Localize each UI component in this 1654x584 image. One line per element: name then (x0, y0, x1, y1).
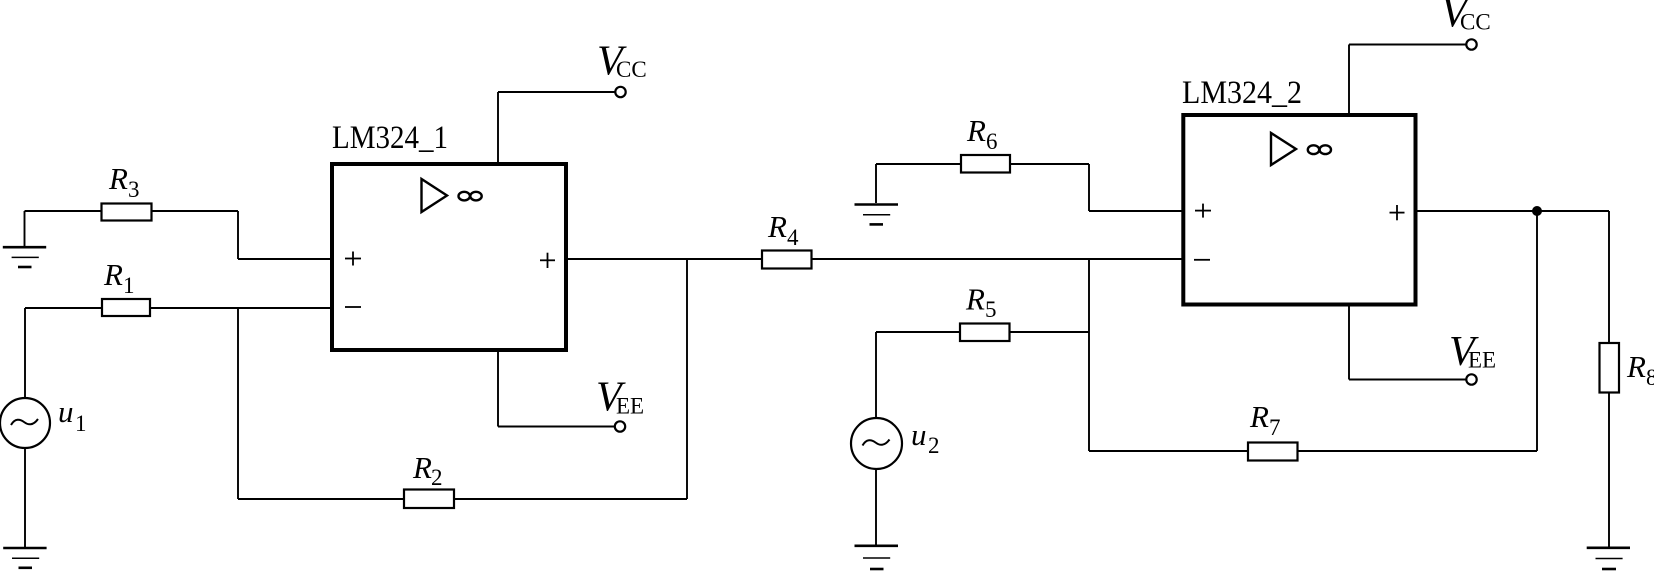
wire (498, 91, 615, 93)
ground (1587, 548, 1630, 569)
wire (1417, 210, 1609, 212)
op-amp U1 output plus (540, 253, 555, 268)
svg-text:3: 3 (128, 177, 140, 202)
resistor R2 (404, 450, 454, 508)
resistor R4 (762, 209, 812, 269)
op-amp U2 plus input (1195, 204, 1211, 218)
wire (1089, 210, 1183, 212)
svg-text:4: 4 (787, 225, 799, 250)
wire (1088, 164, 1090, 211)
wire (1088, 259, 1090, 451)
op-amp U1 LM324_1 (332, 120, 566, 350)
wire (25, 307, 102, 309)
wire (25, 210, 102, 212)
wire (1349, 44, 1466, 46)
svg-text:1: 1 (123, 273, 135, 298)
svg-text:R: R (966, 113, 986, 148)
source u2 (851, 417, 940, 469)
wire (152, 210, 239, 212)
wire (1089, 450, 1248, 452)
wire (1348, 45, 1350, 115)
resistor R8 (1600, 343, 1654, 393)
resistor R6 (961, 113, 1010, 173)
wire (1010, 163, 1089, 165)
op-amp U2 minus input (1194, 259, 1210, 261)
terminal VCC (1441, 0, 1491, 50)
wire (876, 163, 961, 165)
op-amp U1 minus input (345, 306, 361, 308)
svg-text:CC: CC (616, 57, 647, 82)
resistor R7 (1248, 399, 1298, 461)
resistor R3 (102, 161, 152, 221)
svg-text:LM324_2: LM324_2 (1182, 75, 1302, 111)
wire (566, 258, 762, 260)
svg-text:2: 2 (928, 433, 940, 458)
wire (498, 426, 614, 428)
wire (238, 258, 330, 260)
svg-text:7: 7 (1269, 415, 1281, 440)
wire (24, 448, 26, 547)
svg-text:6: 6 (986, 129, 998, 154)
svg-text:R: R (103, 257, 123, 292)
terminal VEE (1449, 329, 1496, 385)
op-amp U2 infinity (1308, 145, 1331, 154)
svg-text:R: R (412, 450, 432, 485)
ground (3, 548, 46, 568)
svg-text:u: u (58, 394, 74, 429)
wire (875, 469, 877, 545)
svg-text:EE: EE (1468, 348, 1496, 373)
svg-text:LM324_1: LM324_1 (332, 120, 448, 156)
wire (497, 92, 499, 162)
node output junction (1532, 206, 1542, 216)
svg-text:R: R (965, 282, 985, 317)
wire (237, 308, 239, 499)
wire (497, 352, 499, 427)
wire (1608, 393, 1610, 548)
wire (1010, 331, 1090, 333)
terminal VEE (596, 375, 644, 432)
svg-text:R: R (1626, 349, 1646, 384)
terminal VCC (597, 39, 647, 98)
svg-text:EE: EE (616, 394, 644, 419)
svg-text:8: 8 (1646, 365, 1654, 390)
op-amp U1 plus input (345, 252, 361, 266)
wire (454, 498, 687, 500)
wire (812, 258, 1184, 260)
wire (876, 331, 960, 333)
svg-text:u: u (911, 417, 927, 452)
op-amp U2 LM324_2 (1182, 75, 1416, 305)
wire (1349, 379, 1466, 381)
op-amp U1 infinity (459, 192, 482, 201)
svg-text:R: R (1249, 399, 1269, 434)
wire (686, 259, 688, 499)
op-amp U1 triangle (422, 179, 448, 212)
wire (1536, 211, 1538, 451)
op-amp U2 triangle (1271, 133, 1296, 165)
svg-text:1: 1 (75, 411, 87, 436)
op-amp U2 output plus (1390, 205, 1405, 220)
wire (237, 211, 239, 259)
wire (150, 307, 330, 309)
wire (24, 211, 26, 246)
wire (1348, 305, 1350, 380)
wire (24, 308, 26, 398)
svg-text:2: 2 (431, 465, 443, 490)
wire (1298, 450, 1538, 452)
wire (875, 164, 877, 203)
svg-text:CC: CC (1460, 10, 1491, 35)
ground (855, 546, 899, 569)
svg-text:R: R (108, 161, 128, 196)
resistor R5 (960, 282, 1010, 342)
svg-text:5: 5 (985, 297, 997, 322)
ground (855, 205, 899, 225)
ground (3, 247, 46, 267)
resistor R1 (102, 257, 150, 316)
wire (1608, 211, 1610, 343)
source u1 (0, 394, 87, 448)
wire (238, 498, 404, 500)
wire (875, 332, 877, 418)
svg-text:R: R (767, 209, 787, 244)
